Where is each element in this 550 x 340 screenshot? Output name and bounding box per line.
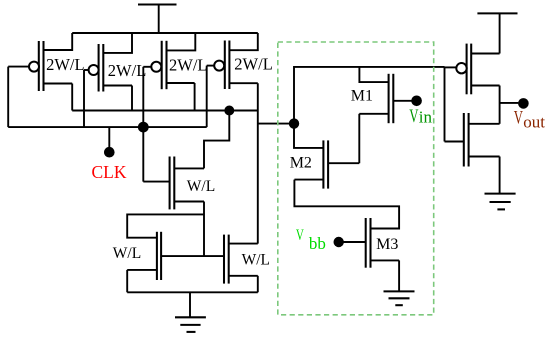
svg-text:2W/L: 2W/L: [108, 61, 147, 80]
wire M1 drain tap: [359, 67, 388, 82]
transistor N2 (NMOS W/L left, mirrored): [127, 232, 161, 280]
svg-text:in: in: [419, 107, 433, 126]
label 2W/L of T2: [108, 61, 147, 80]
transistor T1 (PMOS 2W/L): [8, 41, 72, 91]
ground G2 (M3): [384, 291, 415, 305]
wire rail drop to T3 drain: [167, 33, 195, 50]
transistor P5 (inverter PMOS): [445, 44, 500, 95]
svg-text:M3: M3: [376, 236, 398, 253]
wire M3 source to ground: [398, 260, 400, 291]
transistor M3 (NMOS): [344, 218, 400, 268]
power VDD2 (right T symbol): [477, 13, 517, 53]
svg-text:V: V: [296, 227, 304, 244]
svg-text:bb: bb: [309, 234, 326, 253]
junction dot node X: [289, 118, 299, 128]
label W/L of N2: [113, 245, 141, 262]
node Vout terminal: [500, 98, 529, 109]
wire rail drop to T1 drain: [44, 33, 72, 50]
wire T4 drain long vertical: [257, 83, 259, 243]
wire T2 gate drop: [83, 70, 85, 127]
wire bottom rail to ground: [127, 291, 258, 293]
label Vbb: [296, 227, 326, 253]
wire gate line N2-N3: [161, 255, 224, 257]
wire inverter input drop: [444, 67, 446, 142]
svg-text:W/L: W/L: [242, 251, 270, 268]
transistor N1 (NMOS W/L upper): [143, 157, 204, 210]
label Vin: [409, 106, 432, 127]
wire N2 drain up-across: [127, 214, 204, 237]
wire M2 source down-across to M3 drain: [294, 180, 399, 229]
wire node X down to M2 drain: [294, 124, 323, 148]
svg-text:2W/L: 2W/L: [234, 54, 272, 73]
svg-text:out: out: [523, 112, 545, 131]
label M3: [376, 236, 398, 253]
wire T3 gate to N1 gate: [142, 67, 144, 182]
wire node H1 (upper horizontal): [72, 110, 258, 112]
label M1: [351, 88, 373, 105]
label 2W/L of T4: [234, 54, 272, 73]
label Vout: [514, 107, 546, 131]
svg-text:V: V: [409, 106, 418, 127]
ground G1 (NMOS block): [175, 292, 206, 332]
svg-text:V: V: [514, 107, 523, 128]
power VDD1 (top T symbol): [138, 5, 177, 34]
label 2W/L of T3: [169, 55, 208, 74]
node Vin terminal: [411, 96, 422, 107]
wire P5 drain down to output: [499, 86, 501, 124]
transistor T2 (PMOS 2W/L): [84, 44, 132, 92]
junction dot on H1: [224, 106, 234, 116]
wire T4 gate drop: [206, 66, 208, 128]
transistor M1 (NMOS, mirrored): [359, 74, 411, 123]
transistor T4 (PMOS 2W/L): [207, 41, 258, 90]
ground G3 (inverter): [485, 194, 516, 210]
wire N3 source drop: [257, 276, 259, 293]
svg-text:M1: M1: [351, 88, 373, 105]
svg-text:W/L: W/L: [113, 245, 141, 262]
wire node X up and across to inverter input: [294, 67, 445, 124]
wire T3 drain drop to node H1: [194, 83, 196, 111]
junction dot on H2: [138, 122, 149, 133]
node CLK terminal: [104, 127, 115, 157]
label W/L of N1: [187, 178, 215, 195]
wire node H2 (clock line): [8, 126, 207, 128]
svg-text:2W/L: 2W/L: [46, 55, 85, 74]
svg-text:M2: M2: [290, 154, 312, 171]
wire N5 source to ground: [499, 157, 501, 194]
wire rail drop to T2 drain: [104, 33, 132, 53]
wire N2 source drop: [126, 270, 128, 292]
transistor N5 (inverter NMOS): [445, 113, 500, 167]
wire rail drop to T4 drain: [230, 33, 258, 50]
wire T2 drain drop to node H1: [131, 86, 133, 111]
wire N1 drain up to dot on H1: [204, 111, 229, 169]
transistor N3 (NMOS W/L right): [224, 235, 258, 284]
wire VDD rail: [72, 32, 258, 34]
label CLK: [92, 162, 127, 182]
wire N1 source down to gate line: [203, 202, 205, 257]
node Vbb terminal: [334, 237, 344, 247]
dashed box (bias generator cell): [278, 42, 434, 315]
svg-text:2W/L: 2W/L: [169, 55, 208, 74]
wire branch to node X: [258, 123, 294, 125]
svg-text:CLK: CLK: [92, 162, 127, 182]
wire T1 gate feedback (left): [7, 67, 9, 128]
wire M1 source to M2 gate: [358, 114, 360, 163]
label W/L of N3: [242, 251, 270, 268]
transistor M2 (NMOS, mirrored): [294, 140, 359, 188]
label 2W/L of T1: [46, 55, 85, 74]
transistor T3 (PMOS 2W/L): [143, 41, 194, 89]
svg-text:W/L: W/L: [187, 178, 215, 195]
label M2: [290, 154, 312, 171]
wire T1 drain drop to node H1: [71, 84, 73, 111]
